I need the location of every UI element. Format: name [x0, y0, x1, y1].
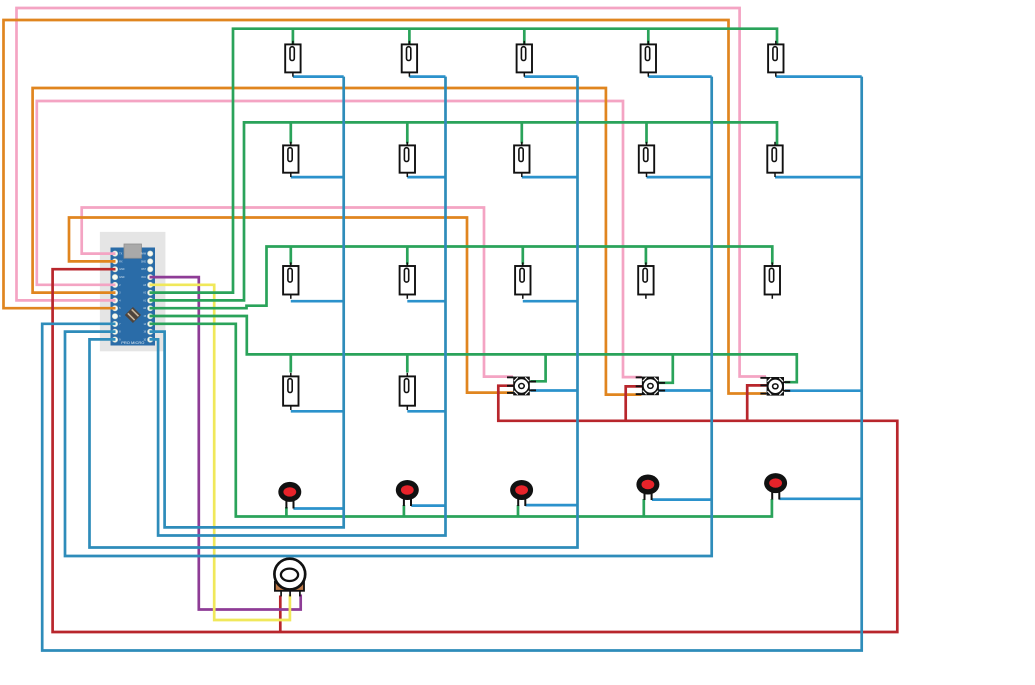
svg-text:GND: GND — [119, 277, 124, 279]
Pro Micro U1 USB connector — [124, 244, 142, 258]
wire green row1 stub — [292, 29, 295, 44]
wire orange pin2 to motor M3 — [69, 218, 513, 393]
switch SW41 — [283, 373, 298, 410]
wire yellow A3 to potentiometer leg2 — [150, 285, 290, 620]
LED LED5 — [764, 473, 787, 499]
LED LED3 — [510, 480, 533, 506]
wire pink pin7 to motor M5 — [17, 8, 767, 377]
switch SW33 — [515, 262, 530, 298]
wire green row1 stub — [408, 29, 411, 44]
wire green LED anode stub — [642, 499, 645, 517]
LED LED2 — [396, 480, 419, 506]
wire green row3 stub — [521, 247, 524, 265]
wire red motor M5 to bus — [747, 385, 767, 420]
switch SW21 — [283, 142, 298, 177]
wire blue SW32 to column2 — [407, 300, 445, 303]
wire green rail to motor M4 — [658, 354, 673, 382]
wire blue SW41 to column1 — [291, 410, 344, 413]
wire green row1 stub — [523, 29, 526, 44]
wire green row2 stub — [645, 122, 648, 143]
wire blue SW42 to column2 — [407, 410, 445, 413]
wire blue SW13 to column3 — [524, 75, 577, 78]
wire blue LED4 to column4 — [652, 498, 712, 501]
wire pink pin1 to motor M3 — [82, 208, 513, 377]
wire green row1 stub — [647, 29, 650, 44]
svg-text:RST: RST — [141, 269, 146, 271]
wire green row4 stub — [289, 354, 292, 372]
switch SW22 — [400, 142, 415, 177]
wire red potentiometer leg1 to bus — [279, 596, 282, 633]
motor M5 — [760, 377, 790, 396]
switch SW35 — [765, 262, 780, 298]
wire green row3 rail — [150, 247, 773, 309]
wire blue column5 vertical to pin7 — [42, 77, 862, 651]
Pro Micro U1 chip — [125, 307, 141, 323]
switch SW14 — [641, 41, 656, 77]
wire blue motor M5 to column5 — [785, 389, 862, 392]
potentiometer R1 — [274, 559, 305, 597]
switch SW23 — [514, 142, 529, 177]
wire blue SW24 to column4 — [647, 176, 712, 179]
Pro Micro U1 breadboard pad — [100, 232, 165, 351]
motor M4 — [636, 376, 665, 395]
Pro Micro U1 pin headers — [112, 251, 153, 342]
switch SW34 — [638, 262, 653, 298]
wire green row3 stub — [289, 247, 292, 265]
wire green LED anode stub — [517, 505, 520, 517]
switch SW32 — [400, 262, 415, 298]
wire pink pin5 to motor M4 — [37, 101, 642, 377]
switch SW11 — [285, 41, 300, 77]
wire green row3 stub — [406, 247, 409, 265]
wire green row1 rail — [150, 29, 778, 293]
LED LED1 — [278, 482, 301, 509]
wire green LED anode stub — [285, 507, 288, 517]
wire green LED anode rail — [150, 324, 772, 517]
wire blue LED5 to column5 — [780, 497, 862, 500]
svg-text:PRO MICRO: PRO MICRO — [121, 340, 144, 345]
wire green row4 stub — [406, 354, 409, 372]
switch SW13 — [517, 41, 532, 77]
motor M3 — [507, 376, 536, 395]
wire blue motor M3 to column3 — [531, 389, 578, 392]
wire blue LED2 to column2 — [411, 504, 445, 507]
wire blue SW25 to column5 — [775, 176, 862, 179]
wire green row2 stub — [520, 122, 523, 143]
wire green rail to motor M3 — [531, 354, 546, 381]
wire blue SW22 to column2 — [407, 176, 445, 179]
wire orange pin6 to motor M4 — [33, 88, 642, 395]
wire blue SW33 to column3 — [523, 300, 578, 303]
wire blue LED3 to column3 — [525, 504, 577, 507]
svg-text:GND: GND — [141, 261, 146, 263]
wire blue SW21 to column1 — [291, 176, 344, 179]
wire red motor M4 to bus — [626, 386, 643, 420]
switch SW15 — [768, 41, 783, 77]
svg-text:TX: TX — [119, 254, 122, 256]
wire blue SW14 to column4 — [648, 75, 711, 78]
svg-text:VCC: VCC — [141, 277, 146, 279]
wire blue LED1 to column1 — [293, 507, 343, 510]
wire green row2 stub — [289, 122, 292, 143]
wire red GND bus to motor M3 — [53, 269, 898, 632]
svg-text:GND: GND — [119, 269, 124, 271]
LED LED4 — [636, 475, 659, 501]
wire blue SW11 to column1 — [293, 75, 344, 78]
switch SW24 — [639, 142, 654, 177]
wire blue SW15 to column5 — [776, 75, 862, 78]
wire blue motor M4 to column4 — [658, 389, 712, 392]
wire green LED anode stub — [403, 505, 406, 517]
wire blue column3 vertical to pin9 — [90, 77, 578, 548]
switch SW31 — [283, 262, 298, 298]
switch SW12 — [402, 41, 417, 77]
svg-text:RAW: RAW — [141, 253, 147, 256]
wire blue SW31 to column1 — [291, 300, 344, 303]
Pro Micro U1 PCB — [111, 248, 156, 346]
wire orange pin8 to motor M5 — [4, 20, 767, 394]
wire green row3 stub — [645, 247, 648, 265]
switch SW25 — [767, 142, 782, 177]
wire blue SW23 to column3 — [522, 176, 578, 179]
wire purple VCC to potentiometer leg3 — [150, 277, 301, 609]
svg-text:RX: RX — [119, 261, 123, 263]
wire blue column4 vertical to pin8 — [65, 77, 712, 556]
wire green row2 stub — [406, 122, 409, 143]
wire green row4 rail — [150, 316, 797, 382]
wire green row2 rail — [150, 122, 778, 300]
switch SW42 — [400, 373, 415, 410]
wire blue SW12 to column2 — [409, 75, 445, 78]
wire blue column1 vertical to pin15 — [150, 77, 344, 528]
wire blue column2 vertical to pin14 — [150, 77, 446, 536]
